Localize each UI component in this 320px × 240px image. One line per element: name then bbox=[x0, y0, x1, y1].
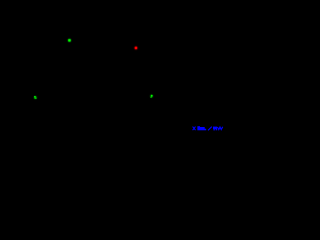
credit text (blue, bottom right): initial X bbox=[193, 126, 223, 130]
credit slash bbox=[208, 127, 212, 131]
credit word blob bbox=[197, 126, 200, 127]
star marker R1 (red, upper middle-right) bbox=[134, 46, 137, 49]
credit letters RW bbox=[213, 127, 217, 129]
star marker G3 (green, lower right, irregular) bbox=[150, 95, 153, 98]
star marker G1 (green, upper left) bbox=[68, 39, 71, 42]
star marker G2 (green, lower left, irregular comma shape) bbox=[34, 96, 37, 99]
